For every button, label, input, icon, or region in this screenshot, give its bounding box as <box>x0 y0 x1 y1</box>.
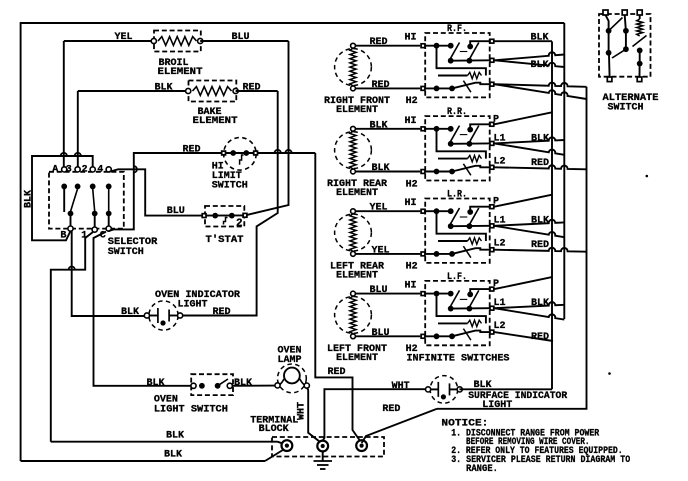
svg-text:ELEMENT: ELEMENT <box>336 105 378 116</box>
svg-text:BLK: BLK <box>531 60 549 71</box>
svg-text:BLK: BLK <box>234 378 252 389</box>
svg-text:RED: RED <box>372 80 390 91</box>
svg-text:BLU: BLU <box>167 206 185 217</box>
svg-text:L.F.: L.F. <box>447 272 467 283</box>
svg-text:BLK: BLK <box>531 216 549 227</box>
svg-text:4: 4 <box>97 165 103 176</box>
svg-text:BLU: BLU <box>370 285 388 296</box>
svg-text:BLOCK: BLOCK <box>259 424 289 435</box>
svg-text:BLU: BLU <box>372 328 390 339</box>
svg-text:L2: L2 <box>494 239 506 250</box>
svg-text:YEL: YEL <box>372 245 390 256</box>
svg-text:HI: HI <box>405 198 417 209</box>
svg-text:RED: RED <box>370 37 388 48</box>
svg-text:H2: H2 <box>406 262 418 273</box>
svg-text:2: 2 <box>82 165 88 176</box>
svg-text:ELEMENT: ELEMENT <box>336 353 378 364</box>
svg-text:L.R.: L.R. <box>447 190 467 201</box>
svg-text:RANGE.: RANGE. <box>466 464 498 475</box>
svg-text:R.F.: R.F. <box>447 24 467 35</box>
svg-text:YEL: YEL <box>370 203 388 214</box>
svg-text:SWITCH: SWITCH <box>608 103 644 114</box>
svg-text:RED: RED <box>183 145 201 156</box>
svg-text:ELEMENT: ELEMENT <box>336 270 378 281</box>
svg-text:BLU: BLU <box>232 32 250 43</box>
svg-text:BLK: BLK <box>164 450 182 461</box>
svg-text:HI: HI <box>405 116 417 127</box>
svg-text:BLK: BLK <box>121 307 139 318</box>
svg-text:H2: H2 <box>406 179 418 190</box>
svg-text:LIGHT: LIGHT <box>482 400 512 411</box>
svg-text:BLK: BLK <box>166 431 184 442</box>
svg-text:RED: RED <box>531 240 549 251</box>
svg-text:BLK: BLK <box>531 33 549 44</box>
svg-text:YEL: YEL <box>115 32 133 43</box>
svg-text:BLK: BLK <box>147 378 165 389</box>
svg-text:BLK: BLK <box>155 83 173 94</box>
svg-text:RED: RED <box>328 367 346 378</box>
svg-text:ELEMENT: ELEMENT <box>336 188 378 199</box>
svg-text:BLK: BLK <box>372 163 390 174</box>
svg-text:RED: RED <box>243 83 261 94</box>
svg-text:LIGHT SWITCH: LIGHT SWITCH <box>154 405 228 416</box>
svg-text:RED: RED <box>213 307 231 318</box>
svg-text:ELEMENT: ELEMENT <box>193 116 238 127</box>
svg-text:SWITCH: SWITCH <box>108 247 144 258</box>
svg-text:T'STAT: T'STAT <box>206 234 244 246</box>
svg-text:H2: H2 <box>406 96 418 107</box>
svg-text:SWITCH: SWITCH <box>212 181 248 192</box>
svg-text:WHT: WHT <box>392 381 410 392</box>
svg-text:LIGHT: LIGHT <box>178 300 208 311</box>
svg-text:BLK: BLK <box>531 133 549 144</box>
svg-text:HI: HI <box>405 281 417 292</box>
svg-text:3: 3 <box>66 165 72 176</box>
svg-text:LAMP: LAMP <box>278 355 302 366</box>
svg-text:HI: HI <box>405 33 417 44</box>
svg-text:BLK: BLK <box>370 120 388 131</box>
svg-text:RED: RED <box>382 404 400 415</box>
svg-text:2: 2 <box>236 218 243 230</box>
svg-text:BLK: BLK <box>24 190 35 208</box>
svg-text:L2: L2 <box>494 156 506 167</box>
svg-text:INFINITE SWITCHES: INFINITE SWITCHES <box>407 354 510 365</box>
svg-text:R.R.: R.R. <box>447 107 467 118</box>
svg-text:RED: RED <box>531 332 549 343</box>
svg-text:ELEMENT: ELEMENT <box>158 67 203 78</box>
svg-text:RED: RED <box>531 158 549 169</box>
svg-text:A: A <box>52 165 58 176</box>
svg-text:BLK: BLK <box>531 298 549 309</box>
svg-text:L2: L2 <box>494 321 506 332</box>
